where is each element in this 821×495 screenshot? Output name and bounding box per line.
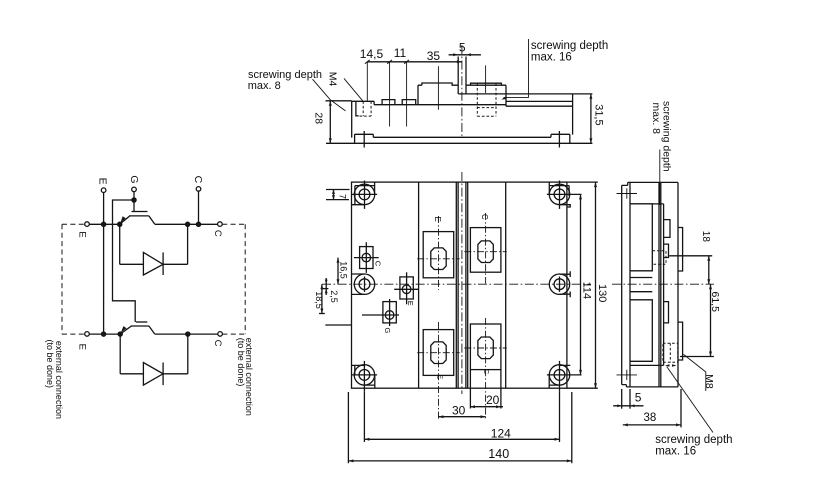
dimension 5 baseplate — [613, 389, 643, 409]
aux boss side — [664, 220, 670, 258]
platform surface right — [466, 83, 506, 85]
centre blade — [458, 57, 592, 94]
node rail2 left open — [85, 332, 90, 337]
aux screw axis 1 — [389, 62, 391, 127]
svg-text:18,5: 18,5 — [314, 291, 324, 309]
mounting screw axis right — [558, 131, 560, 148]
mounting hole top-left — [352, 181, 378, 209]
control terminal E rect — [394, 272, 418, 306]
wire E terminal vertical — [103, 193, 105, 335]
svg-text:130: 130 — [596, 284, 608, 302]
aux screw axis 2 — [406, 62, 408, 127]
ear pad lines bottom — [630, 364, 664, 366]
svg-text:C: C — [212, 340, 223, 347]
rail 1 dashed right — [222, 223, 245, 225]
baseplate baseline — [326, 142, 592, 144]
terminal bump upper — [678, 228, 683, 272]
mounting hole mid-left — [352, 274, 375, 294]
svg-text:7: 7 — [337, 194, 347, 199]
M4 nut pocket solid — [356, 101, 359, 116]
wire gate branch to lower IGBT — [113, 200, 136, 322]
power terminal C top rect — [470, 228, 501, 273]
node E1a — [102, 222, 106, 226]
terminal bump lower — [678, 322, 683, 360]
mounting screw axis left — [363, 131, 365, 148]
node E2a — [102, 332, 106, 336]
mounting hole mid-right — [549, 271, 570, 297]
svg-text:14,5: 14,5 — [360, 47, 384, 61]
label screwing depth max 8 rotated — [650, 101, 672, 172]
crosshair C bottom — [464, 318, 507, 420]
wire G stub — [133, 192, 135, 200]
node C1 junction — [186, 222, 190, 226]
svg-text:5: 5 — [635, 391, 642, 405]
dimension 20 — [470, 370, 503, 409]
M8 pocket width arrows — [665, 364, 677, 367]
dimension 16,5 — [337, 258, 349, 285]
node rail1 right open — [218, 222, 223, 227]
baseplate inner face — [629, 182, 631, 387]
case panel lower — [630, 300, 652, 362]
dimension 7 — [326, 190, 350, 200]
diode D2 (freewheel bottom) — [120, 334, 188, 385]
svg-text:max. 8: max. 8 — [248, 80, 281, 92]
dimension 130 — [567, 182, 608, 388]
svg-text:(to be done): (to be done) — [45, 340, 55, 389]
mounting axis bottom — [617, 370, 638, 380]
bottom edge — [626, 386, 678, 388]
power terminal E top rect — [423, 232, 454, 278]
dimension 140 — [348, 392, 571, 463]
control terminal G rect — [362, 299, 399, 334]
svg-text:C: C — [482, 369, 489, 374]
svg-text:114: 114 — [580, 282, 592, 300]
wire rail1 left — [89, 223, 119, 225]
svg-text:5: 5 — [459, 41, 466, 55]
dimension 5 blade — [449, 41, 481, 57]
dimension 30 — [438, 403, 485, 418]
body outline right foot — [551, 94, 573, 143]
wire gate stub Q1 — [133, 200, 135, 212]
leader M8 — [684, 354, 706, 391]
svg-text:30: 30 — [452, 403, 466, 417]
svg-text:124: 124 — [491, 426, 511, 440]
svg-text:screwing depth: screwing depth — [531, 40, 608, 52]
svg-text:C: C — [480, 214, 489, 220]
M4 nut pocket dashed — [360, 101, 372, 116]
top edge — [628, 181, 678, 183]
svg-text:E: E — [433, 217, 442, 222]
svg-text:screwing depth: screwing depth — [655, 434, 732, 446]
svg-text:M8: M8 — [703, 374, 715, 389]
svg-text:E: E — [97, 178, 109, 185]
leader screwing depth 16 bottom — [667, 367, 713, 433]
svg-text:E: E — [436, 375, 443, 380]
M4 pocket side dashed — [653, 251, 667, 264]
rail 1 dashed left (external connection) — [62, 223, 87, 225]
right face — [677, 182, 679, 387]
platform surface left — [418, 83, 458, 85]
svg-text:G: G — [128, 175, 140, 183]
deck surface — [374, 104, 506, 106]
node C1b — [196, 222, 200, 226]
svg-text:11: 11 — [394, 46, 407, 60]
mounting hole bottom-right — [547, 361, 582, 392]
aux boss side 2 — [664, 302, 669, 323]
transistor Q2 (IGBT bottom) — [120, 322, 155, 334]
dimension 2,5 — [322, 278, 339, 303]
svg-text:max. 16: max. 16 — [531, 52, 572, 64]
control terminal C rect — [354, 242, 383, 273]
svg-text:E: E — [406, 301, 415, 306]
terminal G1 — [128, 175, 140, 191]
external connection dashed border left — [61, 224, 63, 334]
dimension 124 — [364, 392, 559, 442]
body bottom edge — [373, 136, 551, 138]
node rail1 left open — [85, 222, 90, 227]
platform step — [417, 85, 419, 105]
label screwing depth max 16 top — [531, 40, 608, 64]
svg-text:28: 28 — [312, 112, 324, 124]
node rail2 right open — [218, 332, 223, 337]
terminal E1 (top) — [97, 178, 109, 193]
svg-text:E: E — [76, 344, 87, 350]
wire rail2 right — [155, 333, 218, 335]
wire rail1 right — [155, 223, 218, 225]
svg-text:18: 18 — [700, 231, 711, 243]
transistor Q1 (IGBT top) — [120, 212, 155, 225]
centre gap lines — [456, 182, 467, 388]
power terminal E bottom rect — [423, 330, 454, 376]
leader screwing depth 16 top — [503, 39, 528, 98]
external connection dashed border right — [244, 224, 246, 334]
module body outline — [352, 182, 567, 388]
svg-text:20: 20 — [486, 393, 500, 407]
ear pad lines mid — [630, 278, 652, 292]
svg-text:140: 140 — [488, 447, 509, 461]
screw E top — [431, 248, 446, 270]
node G junction — [132, 198, 136, 202]
crosshair C top — [464, 213, 507, 284]
svg-text:max. 16: max. 16 — [655, 446, 696, 458]
wire rail2 left — [89, 333, 120, 335]
terminal screw axis C — [485, 65, 487, 93]
dimension 28 — [312, 101, 351, 144]
svg-text:35: 35 — [427, 49, 441, 63]
power terminal C bottom rect — [470, 324, 501, 370]
mounting hole bottom-left — [352, 361, 378, 392]
body outline left — [352, 101, 374, 143]
svg-text:(to be done): (to be done) — [236, 338, 246, 387]
svg-text:31,5: 31,5 — [592, 104, 604, 125]
svg-text:E: E — [76, 231, 87, 237]
mounting hole top-right — [547, 181, 582, 209]
screw C top — [478, 241, 493, 263]
svg-text:G: G — [383, 328, 392, 334]
baseplate outer face — [622, 182, 628, 387]
rail 2 dashed left — [62, 333, 87, 335]
dimension 114 — [579, 194, 592, 375]
crosshair E bottom — [417, 322, 460, 420]
terminal C1 — [192, 176, 204, 192]
svg-text:C: C — [212, 230, 223, 237]
svg-text:M4: M4 — [327, 72, 339, 87]
rail 2 dashed right — [222, 333, 245, 335]
raised centre section left edge — [418, 182, 420, 388]
svg-text:2,5: 2,5 — [329, 290, 339, 303]
ear pad lines top — [630, 203, 664, 205]
diode D1 (freewheel top) — [120, 224, 188, 275]
raised centre section right edge — [505, 182, 507, 388]
case inner verticals — [659, 182, 664, 387]
node E2 emitter — [118, 332, 122, 336]
screw E bottom — [431, 342, 446, 364]
aux pad 2 — [402, 100, 416, 105]
svg-text:16,5: 16,5 — [339, 261, 349, 279]
label screwing depth max 16 bottom — [655, 434, 732, 458]
M8 nut pocket dashed — [477, 83, 496, 116]
aux pad 1 — [382, 100, 395, 105]
svg-text:max. 8: max. 8 — [650, 103, 662, 135]
M4 screw axis — [366, 62, 368, 102]
mounting axis top — [617, 188, 638, 198]
svg-text:61,5: 61,5 — [709, 292, 721, 313]
leader screwing depth 8 — [313, 79, 346, 111]
svg-text:C: C — [374, 261, 383, 267]
dimension 18,5 — [314, 284, 325, 313]
case panel upper — [630, 204, 652, 271]
stray line below 18,5 — [325, 324, 351, 326]
dimension 18 — [669, 231, 712, 284]
dimension 38 — [623, 389, 681, 427]
leader screwing depth 8 side — [659, 150, 661, 206]
right plateau — [506, 85, 573, 106]
wire C1 vertical — [198, 191, 200, 224]
centreline vertical dash-dot — [461, 172, 463, 394]
centreline horizontal dash-dot — [322, 283, 590, 285]
node C2 junction — [186, 332, 190, 336]
dimension 31,5 — [589, 94, 604, 144]
crosshair E top — [417, 216, 460, 290]
centreline side view — [612, 283, 714, 285]
centre axis dash-dot — [461, 45, 463, 137]
node E1 emitter — [118, 222, 122, 226]
terminal screw axis E — [437, 66, 439, 110]
label screwing depth max 8 left — [248, 69, 322, 92]
screw C bottom — [478, 337, 493, 359]
svg-text:38: 38 — [644, 412, 657, 424]
leader M4 — [344, 78, 363, 101]
M8 pocket side dashed — [663, 343, 678, 362]
dimension line top (14,5 / 11 / 35) — [360, 46, 462, 64]
svg-text:C: C — [192, 176, 204, 184]
aux block top — [352, 101, 374, 104]
dimension 61,5 — [680, 284, 721, 356]
